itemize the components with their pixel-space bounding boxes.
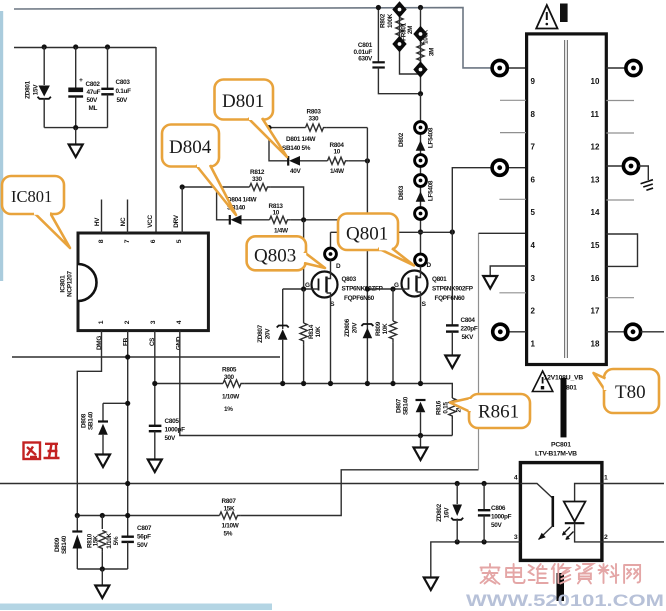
svg-text:2: 2: [604, 534, 608, 541]
wire rail to transformer pin9: [508, 67, 527, 69]
svg-text:50V: 50V: [117, 97, 129, 104]
wire D804 row left riser: [217, 187, 230, 220]
node gate-vert Q801: [365, 286, 370, 291]
label D809 SB140: [54, 535, 68, 554]
wire R807 row: [77, 515, 219, 517]
opto LED: [564, 484, 602, 542]
svg-text:50V: 50V: [165, 435, 177, 442]
label C805 1000pF 50V: [165, 418, 186, 442]
svg-text:LF5408: LF5408: [428, 180, 435, 201]
node VCC-C802: [73, 44, 78, 49]
wire gate feed vertical Q801: [366, 128, 368, 384]
ground opto pin3: [424, 578, 438, 591]
svg-text:10: 10: [334, 149, 341, 156]
svg-text:5KV: 5KV: [462, 334, 475, 341]
wire FB pin2 down: [127, 331, 129, 537]
label PC801 LTV-B17M-VB: [535, 442, 577, 458]
wire startup right branch: [420, 8, 422, 94]
svg-text:D: D: [336, 263, 341, 270]
page border strip bottom: [0, 604, 272, 611]
svg-text:1: 1: [604, 475, 608, 482]
label Q801 STP6NK902FP FQPF6N60: [432, 276, 474, 302]
svg-text:1/10W: 1/10W: [222, 523, 240, 530]
svg-text:50V: 50V: [137, 542, 149, 549]
svg-text:C806: C806: [491, 505, 506, 512]
svg-text:HV: HV: [94, 217, 101, 226]
zener ZD806: [361, 324, 373, 338]
svg-text:1000pF: 1000pF: [165, 427, 186, 434]
zener ZD807: [277, 289, 289, 384]
node FB-opto: [125, 481, 130, 486]
label C801 values: [354, 42, 373, 63]
wire HV top rail: [14, 8, 492, 68]
svg-text:3: 3: [150, 320, 157, 324]
wire pin6 link: [508, 167, 527, 169]
wire pin18 link: [606, 331, 625, 333]
label D804 SB140: [227, 197, 258, 212]
svg-text:50V: 50V: [87, 97, 99, 104]
fusible diamond B: [392, 36, 406, 52]
svg-text:8: 8: [531, 110, 536, 119]
resistor R805 zigzag: [223, 380, 244, 387]
wire pin3 to ground: [490, 266, 526, 275]
wire bottom-left rail: [77, 568, 127, 570]
resistor R816: [449, 398, 456, 436]
node C801-column: [418, 91, 423, 96]
svg-text:LF5408: LF5408: [428, 127, 435, 148]
svg-text:2: 2: [531, 307, 536, 316]
wire drain row: [331, 231, 453, 233]
node FB-D808: [125, 401, 130, 406]
capacitor C803: [101, 47, 113, 128]
node R813-Q803gate-drop: [301, 217, 306, 222]
node bus-ZD807: [280, 381, 285, 386]
svg-text:330: 330: [309, 116, 320, 123]
connector J-pin13 bullseye: [623, 158, 638, 173]
transformer core line: [565, 40, 568, 358]
fusible diamond D: [413, 61, 427, 77]
watermark chinese: [481, 564, 641, 584]
op-amp IC801 body: [78, 233, 208, 331]
label C803 values: [116, 79, 132, 104]
wire opto pin1 out: [602, 483, 664, 485]
node bus-R809: [390, 381, 395, 386]
svg-text:0.15: 0.15: [443, 402, 450, 414]
svg-text:SB140 5%: SB140 5%: [282, 145, 311, 152]
svg-text:IC801: IC801: [60, 275, 67, 293]
node bus-Q801src: [418, 381, 423, 386]
resistor R802 zigzag: [396, 18, 403, 39]
svg-text:6: 6: [531, 175, 536, 184]
label R810 15K: [87, 533, 100, 548]
node R804-right: [365, 158, 370, 163]
opto light arrows: [562, 527, 574, 540]
wire Q801 gate row: [367, 288, 403, 290]
svg-text:SB140: SB140: [61, 535, 68, 554]
svg-text:C807: C807: [137, 525, 152, 532]
callout R861: [450, 394, 530, 428]
wire Q803 gate row: [283, 288, 312, 290]
resistor R804 zigzag: [328, 157, 349, 164]
svg-text:NC: NC: [120, 217, 127, 226]
label R816 0.15 2W: [436, 400, 463, 415]
svg-text:15V: 15V: [33, 84, 40, 96]
diode D803: [415, 175, 427, 220]
svg-text:R809: R809: [375, 321, 382, 336]
node VCC-ZD801: [42, 44, 47, 49]
label C802 values: [86, 81, 101, 112]
svg-text:47uF: 47uF: [87, 89, 101, 96]
node R814 top: [301, 286, 306, 291]
node C806 top: [482, 481, 487, 486]
wire mid net: [12, 356, 280, 358]
svg-text:R814: R814: [308, 324, 315, 339]
node ZD802 bottom: [455, 539, 460, 544]
ground C805: [148, 460, 162, 473]
svg-text:1: 1: [531, 339, 536, 348]
node row-C804: [450, 229, 455, 234]
label R813 10 1/4W: [269, 203, 289, 235]
wire pin2 stub: [499, 292, 526, 294]
label Q803 STP6NK90ZFP FQPF6N60: [342, 276, 384, 302]
label 12V108U_VB T801: [544, 375, 584, 392]
node HV-C801: [376, 5, 381, 10]
capacitor C802 electrolytic: [68, 47, 83, 128]
resistor R807 zigzag: [220, 512, 241, 519]
svg-text:56pF: 56pF: [137, 534, 151, 541]
wire pin7 stub: [500, 132, 526, 134]
connector J-pin9 bullseye: [492, 60, 507, 75]
ground C804: [445, 356, 459, 369]
svg-text:0.1uF: 0.1uF: [116, 88, 132, 95]
svg-text:D: D: [427, 262, 432, 269]
diode D809: [72, 516, 82, 570]
wire CS sense bus: [155, 383, 223, 385]
svg-text:R861: R861: [478, 402, 519, 423]
svg-text:16V: 16V: [444, 507, 451, 519]
wire DMG pin1 down: [77, 331, 101, 516]
wire startup left branch: [400, 16, 421, 74]
svg-text:1%: 1%: [224, 406, 233, 413]
earth ground pin13: [641, 180, 656, 192]
svg-text:FQPF6N60: FQPF6N60: [435, 295, 466, 302]
svg-text:ZD802: ZD802: [436, 503, 443, 521]
zener ZD802: [451, 484, 463, 542]
callout D801: [215, 80, 288, 158]
wire gnd stub D807: [420, 436, 422, 448]
wire gnd stub rail: [101, 569, 103, 585]
svg-text:1: 1: [98, 320, 105, 324]
svg-text:5%: 5%: [224, 531, 233, 538]
transformer T801 body: [527, 34, 607, 365]
callout IC801: [2, 176, 70, 248]
svg-text:15K: 15K: [93, 535, 100, 547]
wire pin13 earth stub: [639, 166, 649, 180]
svg-text:ZD806: ZD806: [344, 318, 351, 336]
node bottom-rail: [73, 125, 78, 130]
svg-text:18: 18: [591, 339, 600, 348]
svg-text:5: 5: [531, 208, 536, 217]
capacitor C806: [478, 484, 490, 542]
svg-text:S: S: [422, 301, 427, 308]
label C806 1000pF 50V: [491, 505, 512, 529]
svg-text:R802: R802: [380, 13, 387, 28]
warning triangle top: [536, 5, 557, 29]
svg-text:6: 6: [150, 239, 157, 243]
svg-text:Q803: Q803: [342, 276, 357, 283]
svg-text:R812: R812: [250, 169, 265, 176]
resistor R814: [300, 289, 307, 384]
node CS-bus: [152, 381, 157, 386]
opto phototransistor: [520, 484, 552, 540]
node DRV-R812: [180, 184, 185, 189]
svg-text:40V: 40V: [290, 168, 302, 175]
diode D804: [230, 215, 270, 225]
svg-text:GND: GND: [176, 336, 183, 350]
svg-text:11: 11: [591, 110, 600, 119]
wire R803 row: [269, 127, 306, 129]
label D801 SB140 40V: [282, 136, 317, 175]
node VCC-C803: [105, 44, 110, 49]
wire stub to ground: [75, 128, 77, 144]
svg-text:330: 330: [252, 176, 263, 183]
svg-text:2: 2: [124, 320, 131, 324]
wire pin10 link: [606, 67, 626, 69]
svg-text:100K: 100K: [387, 13, 394, 28]
wire FB-D808 branch: [103, 402, 128, 404]
node R809 top: [390, 286, 395, 291]
wire R813 right: [291, 219, 368, 221]
thick bar PC801 bottom: [557, 573, 565, 601]
pin 8 lead: [101, 200, 103, 234]
svg-text:C805: C805: [165, 418, 180, 425]
wire pin12 stub: [606, 132, 634, 134]
svg-text:D801: D801: [222, 91, 264, 112]
node HV-startup-column: [418, 5, 423, 10]
callout Q803: [247, 236, 325, 270]
callout Q801: [338, 214, 414, 266]
svg-text:10: 10: [591, 77, 600, 86]
pin 7 lead: [127, 200, 129, 234]
wire Q801 source: [420, 297, 422, 384]
svg-text:7: 7: [124, 239, 131, 243]
wire pin14 stub: [606, 199, 634, 201]
page border strip left: [0, 11, 3, 281]
svg-text:9: 9: [531, 77, 536, 86]
svg-text:15: 15: [591, 241, 600, 250]
transistor Q803: [312, 260, 338, 297]
wire pin4 gray riser: [478, 233, 480, 469]
label ZD802 16V: [436, 503, 451, 521]
ground VCC-block: [69, 145, 83, 158]
thick bar T801 lead: [561, 378, 567, 437]
svg-text:Q801: Q801: [346, 224, 388, 245]
ground bottom-left: [95, 586, 109, 599]
capacitor C807: [122, 537, 134, 569]
svg-text:Q801: Q801: [432, 276, 447, 283]
label R805 300 1/10W 1%: [222, 367, 240, 414]
svg-text:T80: T80: [615, 382, 646, 403]
wire rectifier column: [420, 94, 422, 254]
label IC801 NCP1207: [60, 270, 74, 296]
resistor FR801 zigzag: [417, 43, 424, 64]
svg-text:20V: 20V: [265, 328, 272, 340]
wire opto pin2 out: [602, 541, 664, 543]
diode D802: [415, 122, 427, 167]
wire D801 row left drop: [269, 128, 288, 161]
label D808 SB140: [81, 411, 95, 430]
node C806 bottom: [482, 539, 487, 544]
wire Q803 source: [330, 298, 332, 384]
wire opto pin3 left: [431, 542, 521, 577]
resistor R803 zigzag: [306, 124, 327, 131]
svg-text:R805: R805: [222, 367, 237, 374]
ground D807: [414, 448, 428, 461]
svg-text:+: +: [79, 77, 83, 84]
node bus-R814: [301, 381, 306, 386]
svg-text:10: 10: [273, 210, 280, 217]
diode D801: [288, 156, 327, 166]
svg-text:ML: ML: [89, 105, 98, 112]
node column-row: [418, 229, 423, 234]
ground pin3: [483, 276, 497, 289]
svg-text:D804: D804: [169, 137, 212, 158]
svg-text:D802: D802: [398, 132, 405, 147]
wire R803 row right: [327, 127, 368, 129]
label 100K 3M: [423, 29, 436, 56]
label R812 330: [250, 169, 265, 183]
svg-text:14: 14: [591, 208, 600, 217]
wire R804 to vertical: [349, 160, 368, 162]
svg-text:20V: 20V: [352, 322, 359, 334]
label ZD807 20V: [257, 324, 272, 342]
svg-text:D808: D808: [81, 413, 88, 428]
svg-text:R803: R803: [307, 109, 322, 116]
wire Q803 drain stub: [330, 232, 332, 248]
label R802 100K: [380, 13, 395, 28]
wire pin16 stub: [606, 297, 634, 299]
wire DRV pin5 up: [181, 187, 183, 233]
wire opto feedback net: [0, 483, 520, 485]
svg-text:SB140: SB140: [403, 396, 410, 415]
capacitor C801: [372, 8, 420, 94]
label Q803 G S D: [305, 263, 341, 308]
label 图五: [24, 443, 60, 460]
svg-text:NCP1207: NCP1207: [67, 270, 74, 296]
label R809 10K: [375, 321, 389, 336]
connector J-pin6 bullseye: [492, 160, 507, 175]
svg-text:IC801: IC801: [11, 187, 52, 206]
svg-text:100K: 100K: [423, 29, 430, 44]
node bus-Q803src: [328, 381, 333, 386]
svg-text:C802: C802: [86, 81, 101, 88]
svg-text:FB: FB: [123, 337, 130, 346]
node gndline-D807: [418, 433, 423, 438]
svg-text:16: 16: [591, 274, 600, 283]
fusible diamond C: [413, 26, 427, 42]
wire pin15 loop: [606, 234, 637, 266]
node FB-midnet: [125, 354, 130, 359]
fusible diamond A: [392, 1, 406, 17]
svg-text:2M: 2M: [407, 26, 414, 34]
label D807 SB140: [396, 396, 410, 415]
wire Q801 drain stub: [420, 253, 422, 256]
capacitor C804: [446, 325, 459, 355]
svg-text:VCC: VCC: [147, 215, 154, 228]
svg-text:7: 7: [531, 143, 536, 152]
svg-text:D809: D809: [54, 537, 61, 552]
label R814 10K: [308, 324, 322, 339]
wire pin1 link: [508, 331, 526, 333]
IC801 notch: [78, 264, 97, 301]
wire CS pin3 down: [154, 331, 156, 426]
svg-text:ZD807: ZD807: [257, 324, 264, 342]
resistor R810: [99, 516, 106, 570]
svg-text:R816: R816: [436, 400, 443, 415]
wire pin18 out: [641, 331, 664, 333]
label R807 15K 1/10W 5%: [222, 498, 240, 538]
svg-text:8: 8: [98, 239, 105, 243]
optocoupler PC801 body: [520, 463, 602, 561]
label ZD801 15V: [25, 80, 40, 98]
transistor Q801: [402, 266, 428, 296]
label C807 56pF 50V: [137, 525, 152, 549]
connector J-pin1 bullseye: [493, 324, 508, 339]
wire C804 drop: [451, 232, 453, 325]
wire sense bus right: [244, 384, 452, 399]
svg-text:5%: 5%: [113, 536, 120, 545]
svg-text:4: 4: [514, 475, 518, 482]
node bus-ZD806: [365, 381, 370, 386]
wire to pin6 riser: [452, 168, 492, 232]
svg-text:D804 1/4W: D804 1/4W: [227, 197, 258, 204]
svg-text:4: 4: [531, 241, 536, 250]
node R803-row-left: [266, 125, 271, 130]
ground D808: [96, 455, 110, 468]
wire DRV drive row R812: [182, 186, 249, 188]
svg-text:13: 13: [591, 175, 600, 184]
svg-text:Q803: Q803: [254, 246, 296, 267]
wire pin8 stub: [500, 99, 526, 101]
resistor R809: [389, 289, 396, 384]
svg-text:4: 4: [176, 320, 183, 324]
warning triangle T801: [532, 371, 552, 392]
svg-text:5: 5: [176, 239, 183, 243]
svg-text:R807: R807: [222, 498, 237, 505]
label FR801 2M: [401, 22, 415, 40]
svg-text:17: 17: [591, 307, 600, 316]
node rail-gnd: [100, 566, 105, 571]
wire pin13 link: [606, 165, 623, 167]
resistor R813 zigzag: [270, 216, 291, 223]
wire pin5 stub: [499, 198, 526, 200]
label R804 10 1/4W: [330, 142, 345, 175]
label ZD806 20V: [344, 318, 359, 336]
label Q801 G S D: [394, 262, 432, 308]
svg-text:C804: C804: [461, 317, 476, 324]
wire pin4 link: [479, 232, 527, 234]
label R810 1/10K 5%: [106, 533, 120, 549]
svg-text:1/4W: 1/4W: [274, 228, 289, 235]
svg-text:3M: 3M: [429, 48, 436, 56]
svg-text:1000pF: 1000pF: [491, 514, 512, 521]
svg-text:12: 12: [591, 143, 600, 152]
svg-text:D801 1/4W: D801 1/4W: [286, 136, 317, 143]
svg-text:FQPF6N60: FQPF6N60: [344, 295, 375, 302]
warning bar top: [560, 4, 568, 23]
svg-text:D803: D803: [398, 185, 405, 200]
svg-text:C803: C803: [116, 79, 131, 86]
